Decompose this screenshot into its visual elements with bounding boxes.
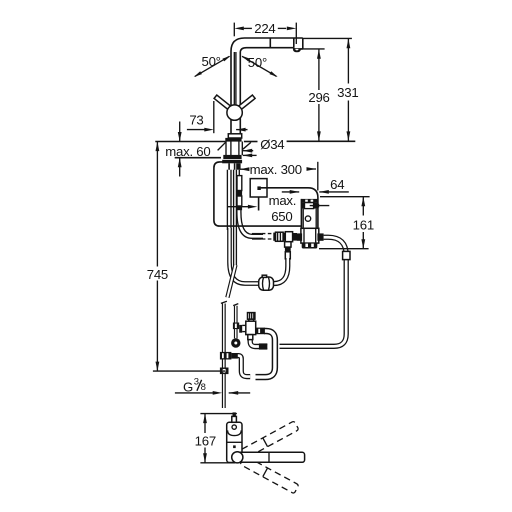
- svg-text:G: G: [183, 379, 193, 394]
- svg-text:max. 60: max. 60: [165, 144, 210, 159]
- svg-text:64: 64: [330, 177, 344, 192]
- svg-text:max. 300: max. 300: [250, 162, 302, 177]
- svg-text:50°: 50°: [202, 54, 221, 69]
- svg-text:161: 161: [353, 217, 374, 232]
- svg-text:296: 296: [308, 90, 329, 105]
- svg-text:8: 8: [201, 382, 206, 393]
- svg-text:745: 745: [147, 267, 168, 282]
- svg-text:max.: max.: [269, 193, 297, 208]
- svg-text:Ø34: Ø34: [260, 137, 284, 152]
- svg-text:650: 650: [271, 209, 292, 224]
- svg-text:73: 73: [189, 113, 203, 128]
- svg-text:3: 3: [194, 377, 199, 388]
- svg-text:224: 224: [254, 21, 275, 36]
- svg-text:331: 331: [337, 85, 358, 100]
- svg-text:167: 167: [195, 433, 216, 448]
- svg-text:50°: 50°: [248, 55, 267, 70]
